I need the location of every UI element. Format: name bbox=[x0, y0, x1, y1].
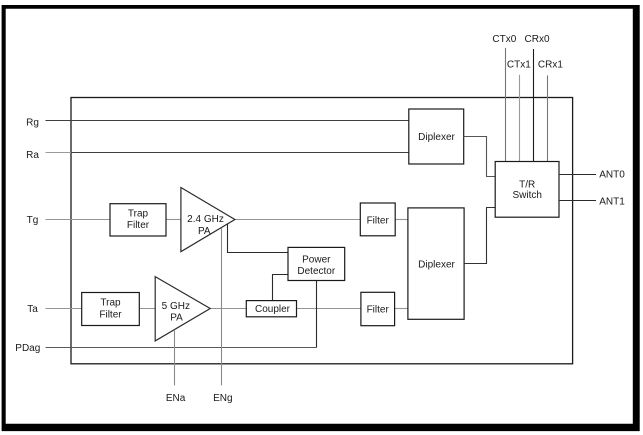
T/R switch box bbox=[495, 162, 559, 218]
svg-text:ENg: ENg bbox=[213, 393, 232, 404]
amplifier 5 GHz PA triangle bbox=[155, 277, 210, 341]
svg-text:CRx1: CRx1 bbox=[538, 60, 563, 71]
svg-text:Filter: Filter bbox=[367, 304, 390, 315]
svg-text:Ta: Ta bbox=[27, 304, 38, 315]
wire Ta: label to Trap Filter bbox=[46, 308, 82, 310]
amplifier 2.4 GHz PA triangle bbox=[181, 188, 235, 252]
wire PDag bbox=[46, 347, 317, 349]
svg-text:ANT0: ANT0 bbox=[599, 169, 625, 180]
wire Filter to Diplexer (2.4GHz path) bbox=[395, 219, 409, 221]
svg-text:Ra: Ra bbox=[26, 150, 39, 161]
svg-text:Switch: Switch bbox=[512, 190, 541, 201]
svg-text:Detector: Detector bbox=[297, 266, 335, 277]
wire Trap Filter to 2.4GHz PA bbox=[166, 219, 181, 221]
svg-text:Diplexer: Diplexer bbox=[418, 132, 455, 143]
wire Trap Filter to 5GHz PA bbox=[139, 308, 155, 310]
svg-text:2.4 GHz: 2.4 GHz bbox=[187, 214, 224, 225]
svg-text:CRx0: CRx0 bbox=[525, 34, 550, 45]
trap filter box (5GHz path) bbox=[82, 293, 140, 326]
wire 5GHz PA output to Coupler bbox=[210, 308, 246, 310]
wire Tg: label to Trap Filter bbox=[46, 219, 111, 221]
module boundary rectangle bbox=[71, 98, 573, 364]
wire transmit diplexer to T/R switch bbox=[464, 208, 496, 264]
wire Filter to Diplexer (5GHz path) bbox=[395, 308, 408, 310]
svg-text:Filter: Filter bbox=[99, 309, 122, 320]
svg-text:ENa: ENa bbox=[166, 393, 186, 404]
svg-text:Filter: Filter bbox=[367, 215, 390, 226]
svg-text:Tg: Tg bbox=[27, 215, 39, 226]
wire enable ENa bbox=[174, 330, 176, 386]
svg-text:Trap: Trap bbox=[128, 208, 149, 219]
wire ANT1 bbox=[559, 200, 596, 202]
filter box (2.4GHz path) bbox=[360, 203, 395, 236]
svg-text:CTx0: CTx0 bbox=[492, 34, 516, 45]
wire Coupler to Filter bbox=[297, 308, 361, 310]
wire receive diplexer to T/R switch bbox=[464, 137, 496, 177]
wire Ra bbox=[46, 152, 72, 154]
svg-text:PA: PA bbox=[198, 226, 211, 237]
filter box (5GHz path) bbox=[361, 292, 395, 325]
svg-text:Power: Power bbox=[302, 255, 331, 266]
wire Rg bbox=[46, 120, 409, 122]
svg-text:Coupler: Coupler bbox=[255, 304, 291, 315]
svg-text:CTx1: CTx1 bbox=[507, 60, 531, 71]
wire control CRx1 bbox=[547, 75, 549, 161]
wire PA output tap down to Power Detector bbox=[228, 224, 289, 253]
wire Power Detector down to PDag bbox=[316, 281, 318, 348]
svg-text:Diplexer: Diplexer bbox=[418, 260, 455, 271]
diplexer box (transmit) bbox=[408, 208, 464, 319]
svg-text:ANT1: ANT1 bbox=[599, 197, 625, 208]
svg-text:PDag: PDag bbox=[15, 343, 40, 354]
svg-text:Rg: Rg bbox=[26, 118, 39, 129]
wire control CTx1 bbox=[519, 75, 521, 162]
svg-text:Filter: Filter bbox=[127, 220, 150, 231]
svg-text:5 GHz: 5 GHz bbox=[162, 301, 190, 312]
power detector box bbox=[288, 247, 345, 280]
wire ANT0 bbox=[559, 174, 596, 176]
wire control CRx0 bbox=[533, 49, 535, 162]
svg-text:Trap: Trap bbox=[100, 297, 121, 308]
svg-text:PA: PA bbox=[170, 312, 183, 323]
wire 2.4GHz PA output to Filter bbox=[235, 219, 360, 221]
trap filter box (2.4GHz path) bbox=[110, 204, 166, 236]
diplexer box (receive) bbox=[409, 109, 464, 164]
wire control CTx0 bbox=[505, 48, 507, 162]
coupler box bbox=[246, 301, 296, 317]
wire Coupler up to Power Detector bbox=[273, 275, 289, 301]
wire enable ENg bbox=[221, 228, 223, 386]
